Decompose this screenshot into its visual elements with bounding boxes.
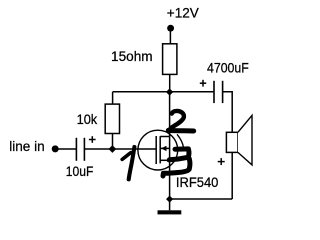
plus sign C2 polarity	[200, 82, 206, 84]
annotation pin 1	[122, 147, 134, 179]
resistor R1 15ohm body	[163, 44, 177, 75]
transistor Q1 circle	[138, 130, 178, 170]
wire gate from C1 to Q1 gate bar	[84, 148, 156, 150]
ground stem	[169, 199, 171, 210]
svg-text:10uF: 10uF	[66, 163, 94, 179]
plus sign C1 polarity	[89, 139, 96, 141]
Q1 source body dot	[167, 158, 171, 162]
speaker LS1 cone	[238, 115, 252, 164]
speaker LS1 box	[226, 132, 238, 152]
wire horizontal bus	[113, 91, 214, 93]
svg-text:4700uF: 4700uF	[207, 59, 249, 75]
Q1 gate bar	[155, 136, 157, 164]
svg-text:15ohm: 15ohm	[111, 48, 153, 64]
Q1 source stub	[160, 159, 169, 161]
wire riser to R2 top	[112, 92, 114, 104]
plus sign speaker polarity	[218, 158, 225, 165]
node junction gate	[109, 145, 117, 153]
resistor R2 10k body	[105, 104, 119, 133]
svg-text:line in: line in	[9, 138, 45, 154]
Q1 drain stub	[160, 136, 169, 138]
node dot line-in terminal	[52, 145, 59, 152]
wire line-in to C1	[58, 148, 76, 150]
annotation pin 2	[168, 111, 193, 131]
node dot +12V terminal	[167, 25, 174, 32]
wire V+ dot to R1 top	[169, 31, 171, 44]
svg-text:+12V: +12V	[167, 4, 200, 20]
annotation pin 3	[163, 135, 190, 176]
wire R2 bottom to gate node	[112, 134, 114, 150]
wire R1 bottom to bus junction	[169, 74, 171, 91]
wire C2 to speaker corner	[223, 92, 233, 199]
capacitor C2 4700uF plates	[213, 81, 215, 103]
capacitor C1 10uF plates	[75, 138, 77, 161]
Q1 channel bar	[159, 136, 161, 163]
wire bottom horizontal to ground junction	[170, 198, 233, 200]
Q1 body line	[160, 147, 169, 149]
wire drain vertical through Q1	[169, 92, 171, 199]
svg-text:10k: 10k	[77, 111, 99, 127]
node junction bus/drain	[166, 88, 173, 95]
svg-text:IRF540: IRF540	[176, 174, 219, 190]
node junction ground	[166, 196, 173, 203]
Q1 body arrow head	[161, 146, 167, 151]
ground bar	[158, 210, 182, 214]
